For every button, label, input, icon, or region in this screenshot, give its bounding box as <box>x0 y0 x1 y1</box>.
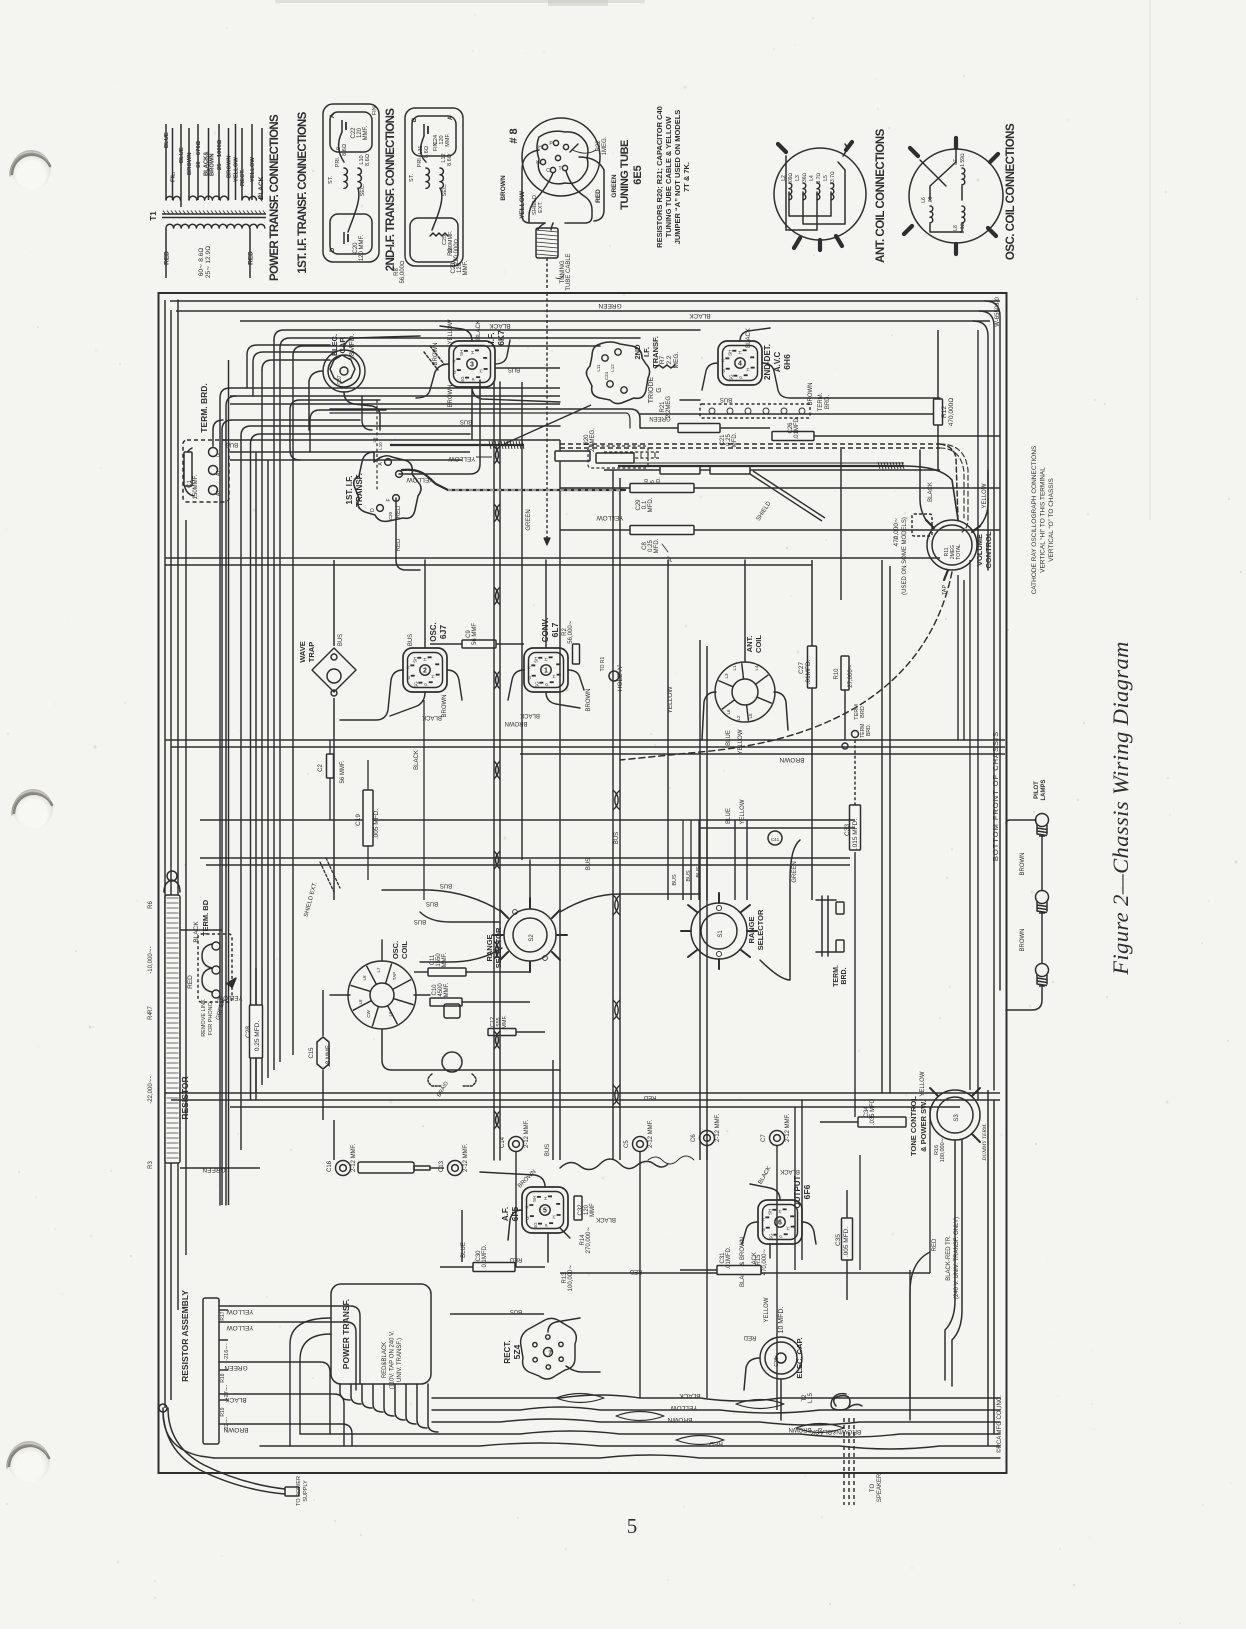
svg-text:BUS: BUS <box>545 1144 551 1156</box>
tuning tube 6E5 socket <box>522 118 600 196</box>
capacitor C10 4500 MMF <box>430 998 462 1006</box>
svg-text:C27: C27 <box>798 662 805 674</box>
svg-text:G: G <box>525 1216 530 1220</box>
svg-text:L7: L7 <box>376 967 381 973</box>
svg-text:GREEN: GREEN <box>611 174 618 197</box>
osc coil L6 <box>930 206 933 223</box>
2nd detector AVC tube 6H6 socket <box>718 341 762 385</box>
trimmer capacitor C13 <box>448 1161 463 1176</box>
T1 secondary coil <box>166 224 265 228</box>
C36 wires <box>744 1358 760 1390</box>
capacitor C33 .015 MFD <box>850 805 861 850</box>
svg-text:TERM. BRD.: TERM. BRD. <box>199 383 209 433</box>
extra dashes terminal strip under 2nd IF <box>604 451 660 453</box>
svg-text:C: C <box>546 168 550 174</box>
svg-text:YELLOW: YELLOW <box>670 1404 698 1411</box>
vertical wire x841 <box>840 449 842 600</box>
svg-text:8.6Ω: 8.6Ω <box>447 154 453 166</box>
svg-text:BRD: BRD <box>860 706 866 718</box>
1st IF transformer detail <box>323 104 379 262</box>
svg-text:H: H <box>423 658 428 661</box>
svg-text:2-12 MMF.: 2-12 MMF. <box>785 1113 791 1142</box>
svg-text:H: H <box>786 1227 791 1230</box>
svg-text:C41: C41 <box>771 837 780 842</box>
svg-text:C20: C20 <box>388 511 393 520</box>
ant coil L4 <box>817 183 820 200</box>
svg-text:RECT.: RECT. <box>503 1340 512 1363</box>
svg-text:D: D <box>370 508 376 512</box>
svg-text:R17: R17 <box>220 1311 226 1320</box>
svg-text:S2: S2 <box>529 934 535 942</box>
S-bend shielded wire from 1st IF A terminal <box>402 470 625 490</box>
volume control terminals <box>926 520 934 528</box>
top horizontal wires GREEN BLACK <box>170 300 1000 302</box>
svg-text:27,000∼: 27,000∼ <box>848 664 854 687</box>
range selector switch S2 <box>504 909 556 961</box>
svg-text:BLACK: BLACK <box>746 328 752 348</box>
svg-text:BLACK: BLACK <box>520 712 540 718</box>
left bus bends into top area <box>177 300 179 318</box>
2nd IF capacitor C24 <box>423 124 425 136</box>
wire horizontals mid2 <box>200 819 855 821</box>
svg-text:SH: SH <box>412 657 417 663</box>
svg-text:BLACK: BLACK <box>476 320 482 340</box>
svg-text:P: P <box>739 376 744 379</box>
svg-text:BROWN: BROWN <box>1020 853 1026 876</box>
svg-text:TRIODE: TRIODE <box>648 376 655 403</box>
svg-text:GREEN: GREEN <box>224 1364 247 1371</box>
range selector switch S1 <box>691 903 747 959</box>
svg-text:GREEN: GREEN <box>792 861 798 882</box>
svg-text:.09: .09 <box>928 196 934 203</box>
shield diagonal line <box>750 474 822 521</box>
svg-text:BLACK: BLACK <box>679 1392 701 1399</box>
svg-text:RED: RED <box>932 1238 938 1251</box>
svg-text:6: 6 <box>778 1220 782 1227</box>
trimmer capacitor C16 <box>336 1161 351 1176</box>
oscillator coil connections detail <box>909 149 1003 243</box>
svg-text:L8: L8 <box>358 999 363 1005</box>
volume control R11 2 MEG <box>927 520 977 570</box>
svg-text:TRAP: TRAP <box>307 642 316 662</box>
svg-text:L6: L6 <box>726 709 731 715</box>
resistor R12 470,000 <box>934 399 943 425</box>
R20 dashed resistor 470000 used on some models <box>912 514 932 536</box>
svg-text:C7: C7 <box>761 1134 767 1142</box>
wire corner bends top-left <box>220 388 230 1205</box>
to speaker dashed lines <box>843 1418 845 1505</box>
svg-text:(240 V. UNIV. TRANSF. ONLY): (240 V. UNIV. TRANSF. ONLY) <box>954 1217 960 1299</box>
capacitor C3 56MMF <box>327 754 334 778</box>
svg-text:BLUE: BLUE <box>726 730 732 746</box>
svg-text:R10: R10 <box>834 668 840 680</box>
svg-text:RANGE: RANGE <box>485 934 494 961</box>
svg-text:BROWN: BROWN <box>500 175 507 201</box>
svg-text:C24: C24 <box>604 371 609 380</box>
svg-text:BUS: BUS <box>440 882 452 888</box>
svg-text:CW: CW <box>366 1010 371 1018</box>
svg-text:BROWN: BROWN <box>586 689 592 712</box>
svg-text:T1: T1 <box>149 211 158 221</box>
svg-text:H: H <box>470 351 475 354</box>
svg-text:56 MMF: 56 MMF <box>472 623 478 645</box>
capacitor C40 .05MFD cluster <box>660 466 700 474</box>
trimmer capacitor C5 <box>633 1137 648 1152</box>
svg-text:8.6Ω: 8.6Ω <box>365 154 371 166</box>
svg-text:6H6: 6H6 <box>782 354 792 370</box>
svg-text:C19: C19 <box>355 814 362 826</box>
svg-text:C28: C28 <box>245 1026 252 1038</box>
svg-text:8.6Ω: 8.6Ω <box>342 144 348 156</box>
svg-text:TO POWER: TO POWER <box>296 1476 302 1506</box>
svg-text:SUPPLY: SUPPLY <box>303 1480 309 1502</box>
svg-text:BROWN: BROWN <box>227 155 233 178</box>
ant coil L3 <box>803 183 806 200</box>
squiggle wire <box>560 1159 668 1170</box>
C33 to C34 vertical <box>854 852 856 1117</box>
svg-text:BUS: BUS <box>720 396 732 402</box>
svg-text:R6: R6 <box>148 901 154 909</box>
svg-text:6L7: 6L7 <box>550 622 560 637</box>
svg-text:GREEN: GREEN <box>598 302 621 309</box>
shield dashed lines <box>430 346 444 364</box>
C32 120MMF <box>574 1196 582 1220</box>
svg-text:TRANSF.: TRANSF. <box>355 473 364 507</box>
svg-text:5: 5 <box>627 1514 638 1538</box>
svg-text:A: A <box>448 115 454 120</box>
osc coil L7 <box>962 168 965 185</box>
capacitor C26 .01MFD <box>772 432 814 441</box>
svg-text:BLUE: BLUE <box>179 147 185 163</box>
osc coil L8 <box>962 206 965 223</box>
svg-text:BUS: BUS <box>226 441 238 447</box>
green wire right of S1 <box>760 840 800 980</box>
svg-text:.36Ω: .36Ω <box>802 172 808 183</box>
svg-text:.035 MFD: .035 MFD <box>870 1098 876 1125</box>
svg-text:R19: R19 <box>220 1407 226 1416</box>
svg-text:SG: SG <box>460 376 465 383</box>
svg-text:FOR PHONO.: FOR PHONO. <box>208 1000 214 1035</box>
converter tube 6L7 socket <box>524 648 568 692</box>
svg-text:R18: R18 <box>220 1373 226 1382</box>
svg-text:FIN.: FIN. <box>372 104 378 115</box>
svg-text:TUNING TUBE: TUNING TUBE <box>619 140 631 210</box>
svg-text:VERTICAL “O” TO CHASSIS: VERTICAL “O” TO CHASSIS <box>1048 478 1055 562</box>
svg-text:OSC. COIL CONNECTIONS: OSC. COIL CONNECTIONS <box>1005 123 1017 260</box>
svg-text:YELLOW: YELLOW <box>519 190 526 219</box>
power supply cord exit <box>163 1408 285 1494</box>
svg-text:SELECTOR: SELECTOR <box>756 909 765 950</box>
svg-text:470,000Ω: 470,000Ω <box>948 398 955 427</box>
extra harness line near bottom <box>214 1455 1000 1458</box>
svg-text:270,000∼: 270,000∼ <box>586 1227 592 1254</box>
capacitor C29 0.1 MFD <box>630 484 694 493</box>
svg-text:L9: L9 <box>372 437 377 443</box>
svg-text:LAMPS: LAMPS <box>1041 780 1047 801</box>
2nd IF transformer (chassis) <box>586 342 649 404</box>
capacitor C28 0.25 MFD <box>250 1005 263 1058</box>
6H6 wires <box>702 363 718 390</box>
2nd IF transformer detail <box>405 108 463 266</box>
green wire right <box>640 413 940 415</box>
svg-text:SH: SH <box>459 350 464 356</box>
svg-text:G: G <box>721 368 726 372</box>
svg-text:C16: C16 <box>327 1160 333 1172</box>
svg-text:RED: RED <box>743 1334 756 1340</box>
hole punch middle <box>13 789 53 829</box>
svg-text:SH: SH <box>533 657 538 663</box>
left vertical bus wires <box>164 300 166 1408</box>
S1 bus risers <box>682 820 684 860</box>
svg-text:BROWN: BROWN <box>223 1426 248 1433</box>
svg-text:120 MMF.: 120 MMF. <box>359 234 365 261</box>
svg-text:SG: SG <box>533 1222 538 1229</box>
capacitor C27 .01MFD <box>808 646 817 688</box>
resistor R10 27,000 <box>841 656 849 690</box>
output tube 6F6 socket <box>758 1200 802 1244</box>
svg-text:POWER TRANSF. CONNECTIONS: POWER TRANSF. CONNECTIONS <box>269 114 281 281</box>
svg-text:F: F <box>386 498 392 501</box>
svg-text:2ND-I.F. TRANSF. CONNECTIONS: 2ND-I.F. TRANSF. CONNECTIONS <box>385 108 397 272</box>
volume control tap down pair <box>957 575 959 740</box>
capacitor C8 0.25 MFD <box>630 526 694 535</box>
svg-text:CAP.: CAP. <box>338 337 347 354</box>
svg-text:3: 3 <box>470 362 474 369</box>
svg-text:C15: C15 <box>309 1047 315 1059</box>
svg-text:K: K <box>526 666 531 669</box>
trimmer capacitor C7 <box>770 1131 785 1146</box>
scan artifact top edge <box>275 0 645 3</box>
svg-text:L5: L5 <box>823 175 829 181</box>
svg-text:C14: C14 <box>500 1136 506 1148</box>
svg-text:S1: S1 <box>718 930 724 938</box>
svg-text:(110V. TAP ON 240 V.: (110V. TAP ON 240 V. <box>390 1330 396 1389</box>
bus wires to S1 <box>682 860 684 900</box>
capacitor C12 555 MMF <box>488 1029 516 1036</box>
svg-text:56,000∼: 56,000∼ <box>568 620 574 643</box>
svg-text:TONE CONTROL: TONE CONTROL <box>909 1096 918 1156</box>
svg-text:G: G <box>656 387 663 392</box>
trimmer capacitor C14 <box>509 1137 524 1152</box>
vertical dashed shield at 1st IF <box>376 400 378 490</box>
svg-text:6E5: 6E5 <box>632 165 644 185</box>
svg-text:JUMPER “A” NOT USED ON MODELS: JUMPER “A” NOT USED ON MODELS <box>673 110 682 245</box>
wires into volume control <box>920 450 926 520</box>
5Z4 wires <box>548 1318 580 1332</box>
svg-text:BOTTOM FRONT OF CHASSIS: BOTTOM FRONT OF CHASSIS <box>991 731 1000 861</box>
R22 1 MEG resistor <box>570 144 578 152</box>
svg-text:MMF.: MMF. <box>444 982 450 997</box>
svg-text:BLACK: BLACK <box>258 176 265 199</box>
svg-text:DUMMY TERM.: DUMMY TERM. <box>982 1123 988 1161</box>
svg-text:180MMF.: 180MMF. <box>448 230 454 253</box>
2nd IF coils L11 L12 <box>426 168 429 188</box>
svg-text:K: K <box>405 666 410 669</box>
svg-text:MMF: MMF <box>590 1203 596 1217</box>
power transformer T1 (connections detail) <box>165 124 167 200</box>
antenna coil assembly <box>715 662 775 722</box>
svg-text:BUS: BUS <box>508 366 520 372</box>
svg-text:BUS: BUS <box>408 634 414 646</box>
svg-text:470,000∼: 470,000∼ <box>762 1249 768 1276</box>
svg-text:BUS: BUS <box>696 866 702 878</box>
svg-text:BUS: BUS <box>338 634 344 646</box>
svg-text:56,000Ω: 56,000Ω <box>400 260 406 283</box>
svg-text:BUS: BUS <box>460 418 472 424</box>
C33 dashed lead <box>854 740 856 805</box>
svg-text:1MEG.: 1MEG. <box>602 136 608 155</box>
svg-text:COIL: COIL <box>754 635 763 653</box>
svg-text:BLACK: BLACK <box>780 1168 800 1174</box>
mid horizontals lower <box>200 857 850 859</box>
svg-text:C6: C6 <box>691 1134 697 1142</box>
svg-text:L6: L6 <box>921 197 927 203</box>
C37 wires <box>344 392 380 430</box>
svg-text:YELLOW: YELLOW <box>234 157 240 182</box>
bus wire from C1 to right <box>222 439 560 441</box>
svg-text:1ST. I.F. TRANSF. CONNECTIONS: 1ST. I.F. TRANSF. CONNECTIONS <box>297 111 309 273</box>
svg-text:.01MFD.: .01MFD. <box>794 416 800 439</box>
ant coil L2 <box>789 183 792 200</box>
1st IF internal wires <box>339 132 345 162</box>
svg-text:6J7: 6J7 <box>438 625 448 639</box>
svg-text:BUS: BUS <box>672 874 678 886</box>
svg-text:R4: R4 <box>148 1012 154 1020</box>
svg-text:.09Ω: .09Ω <box>788 172 794 183</box>
svg-text:H: H <box>479 369 484 372</box>
right vertical feeders <box>985 301 1000 990</box>
svg-text:4: 4 <box>738 361 742 368</box>
svg-text:2-12 MMF.: 2-12 MMF. <box>648 1119 654 1148</box>
T1 primary coils <box>166 196 180 200</box>
svg-text:MMF.: MMF. <box>463 260 469 275</box>
1st IF capacitor C22 <box>341 120 343 132</box>
power transformer leads <box>340 1384 350 1400</box>
svg-text:100,000∼: 100,000∼ <box>568 1265 574 1292</box>
svg-text:.015 MFD.: .015 MFD. <box>852 819 859 850</box>
resistor assembly taps <box>219 1309 228 1311</box>
svg-text:C35: C35 <box>835 1234 842 1246</box>
svg-text:I.F.: I.F. <box>486 332 496 343</box>
svg-text:L3: L3 <box>795 175 801 181</box>
svg-text:BUS: BUS <box>426 900 438 906</box>
6F5 wires <box>508 1210 522 1240</box>
svg-text:RED: RED <box>396 505 402 518</box>
svg-text:RESISTORS R20; R21; CAPACITOR: RESISTORS R20; R21; CAPACITOR C40 <box>655 106 664 248</box>
capacitor C15 18MMF <box>317 1037 329 1069</box>
pilot lamp wires <box>1041 836 1043 890</box>
svg-text:1: 1 <box>544 668 548 675</box>
tuning cable dashed into chassis <box>546 293 548 545</box>
svg-text:ELEC. CAP.: ELEC. CAP. <box>795 1337 804 1378</box>
svg-text:OSC.: OSC. <box>429 622 438 642</box>
svg-text:BLACK: BLACK <box>689 312 711 319</box>
svg-text:0.25 MFD.: 0.25 MFD. <box>254 1021 261 1052</box>
svg-text:L3: L3 <box>724 673 729 679</box>
nested corner loops near C37 <box>247 345 330 388</box>
C31 .01MFD <box>717 1266 761 1275</box>
svg-text:60∼ 8.6Ω: 60∼ 8.6Ω <box>198 248 205 277</box>
hole A <box>609 671 619 681</box>
svg-text:P: P <box>471 378 476 381</box>
svg-text:EXT.: EXT. <box>538 201 544 213</box>
svg-text:.01MFD.: .01MFD. <box>805 659 812 684</box>
svg-text:TO: TO <box>870 1484 876 1493</box>
wire verticals center <box>612 470 614 1160</box>
terminal board with C33 <box>822 896 828 956</box>
svg-text:220,000Ω: 220,000Ω <box>454 238 460 265</box>
svg-text:BUS: BUS <box>586 858 592 870</box>
svg-text:OSC.: OSC. <box>391 941 400 959</box>
2nd IF internal wires <box>421 136 427 162</box>
svg-text:©RCA MFG CO.,INC.: ©RCA MFG CO.,INC. <box>996 1395 1003 1453</box>
wires from 1st IF <box>399 380 480 474</box>
svg-text:G: G <box>761 1227 766 1231</box>
vertical wire x522 <box>521 382 523 860</box>
braid hatch on y445 line <box>390 444 524 446</box>
svg-text:S3: S3 <box>954 1114 960 1122</box>
6E5 leads <box>522 150 545 223</box>
svg-text:0.1MFD.: 0.1MFD. <box>482 1244 488 1267</box>
tuning tube cable to chassis <box>546 258 548 290</box>
svg-text:A1: A1 <box>216 470 222 476</box>
svg-text:.005 MFD.: .005 MFD. <box>843 1227 850 1258</box>
capacitor C21 0.25MFD <box>678 424 720 433</box>
svg-text:BLACK: BLACK <box>489 322 511 329</box>
svg-text:RESISTOR: RESISTOR <box>180 1076 190 1119</box>
svg-text:.005 MFD.: .005 MFD. <box>373 809 380 840</box>
svg-text:R3: R3 <box>148 1161 154 1169</box>
svg-text:& POWER SW.: & POWER SW. <box>919 1100 928 1152</box>
svg-text:ANT. COIL CONNECTIONS: ANT. COIL CONNECTIONS <box>875 128 887 263</box>
horizontal pair y410 <box>330 409 640 428</box>
svg-text:2-12 MMF.: 2-12 MMF. <box>524 1119 530 1148</box>
shielded cable dashed <box>560 443 940 445</box>
svg-text:10 MFD.: 10 MFD. <box>778 1307 785 1334</box>
svg-text:RESISTOR ASSEMBLY: RESISTOR ASSEMBLY <box>180 1290 190 1382</box>
rectifier tube 5Z4 socket <box>521 1318 577 1379</box>
svg-text:SPEAKER: SPEAKER <box>877 1473 883 1502</box>
R14 270000 <box>560 1228 570 1238</box>
svg-text:H: H <box>552 675 557 678</box>
6J7 wires <box>340 670 403 720</box>
svg-text:470,000∼: 470,000∼ <box>893 517 900 546</box>
svg-text:2-12 MMF.: 2-12 MMF. <box>351 1143 357 1172</box>
svg-text:# 8: # 8 <box>508 128 520 143</box>
svg-text:BUS: BUS <box>686 870 692 882</box>
svg-text:YELLOW: YELLOW <box>448 319 454 344</box>
svg-text:.01MFD.: .01MFD. <box>726 1246 732 1269</box>
6L7 wires <box>508 670 524 700</box>
svg-text:RED: RED <box>595 189 602 203</box>
svg-text:P: P <box>424 683 429 686</box>
svg-text:GREEN: GREEN <box>526 509 532 530</box>
oscillator tube 6J7 socket <box>403 648 447 692</box>
svg-text:2-12 MMF.: 2-12 MMF. <box>715 1113 721 1142</box>
svg-text:D: D <box>412 117 418 122</box>
svg-text:SH: SH <box>532 1196 537 1202</box>
svg-text:H: H <box>544 658 549 661</box>
svg-text:YELLOW: YELLOW <box>226 1308 254 1315</box>
svg-text:L8: L8 <box>362 975 367 981</box>
capacitor C1 150MMF <box>183 440 229 502</box>
svg-text:TUNING TUBE CABLE & YELLOW: TUNING TUBE CABLE & YELLOW <box>664 116 673 238</box>
svg-text:56 MMF.: 56 MMF. <box>340 760 346 783</box>
resistor assembly <box>203 1298 219 1444</box>
trimmer adjusting tool <box>358 1162 414 1173</box>
svg-text:ST.: ST. <box>328 176 334 184</box>
bus to 6K7 <box>471 387 473 440</box>
